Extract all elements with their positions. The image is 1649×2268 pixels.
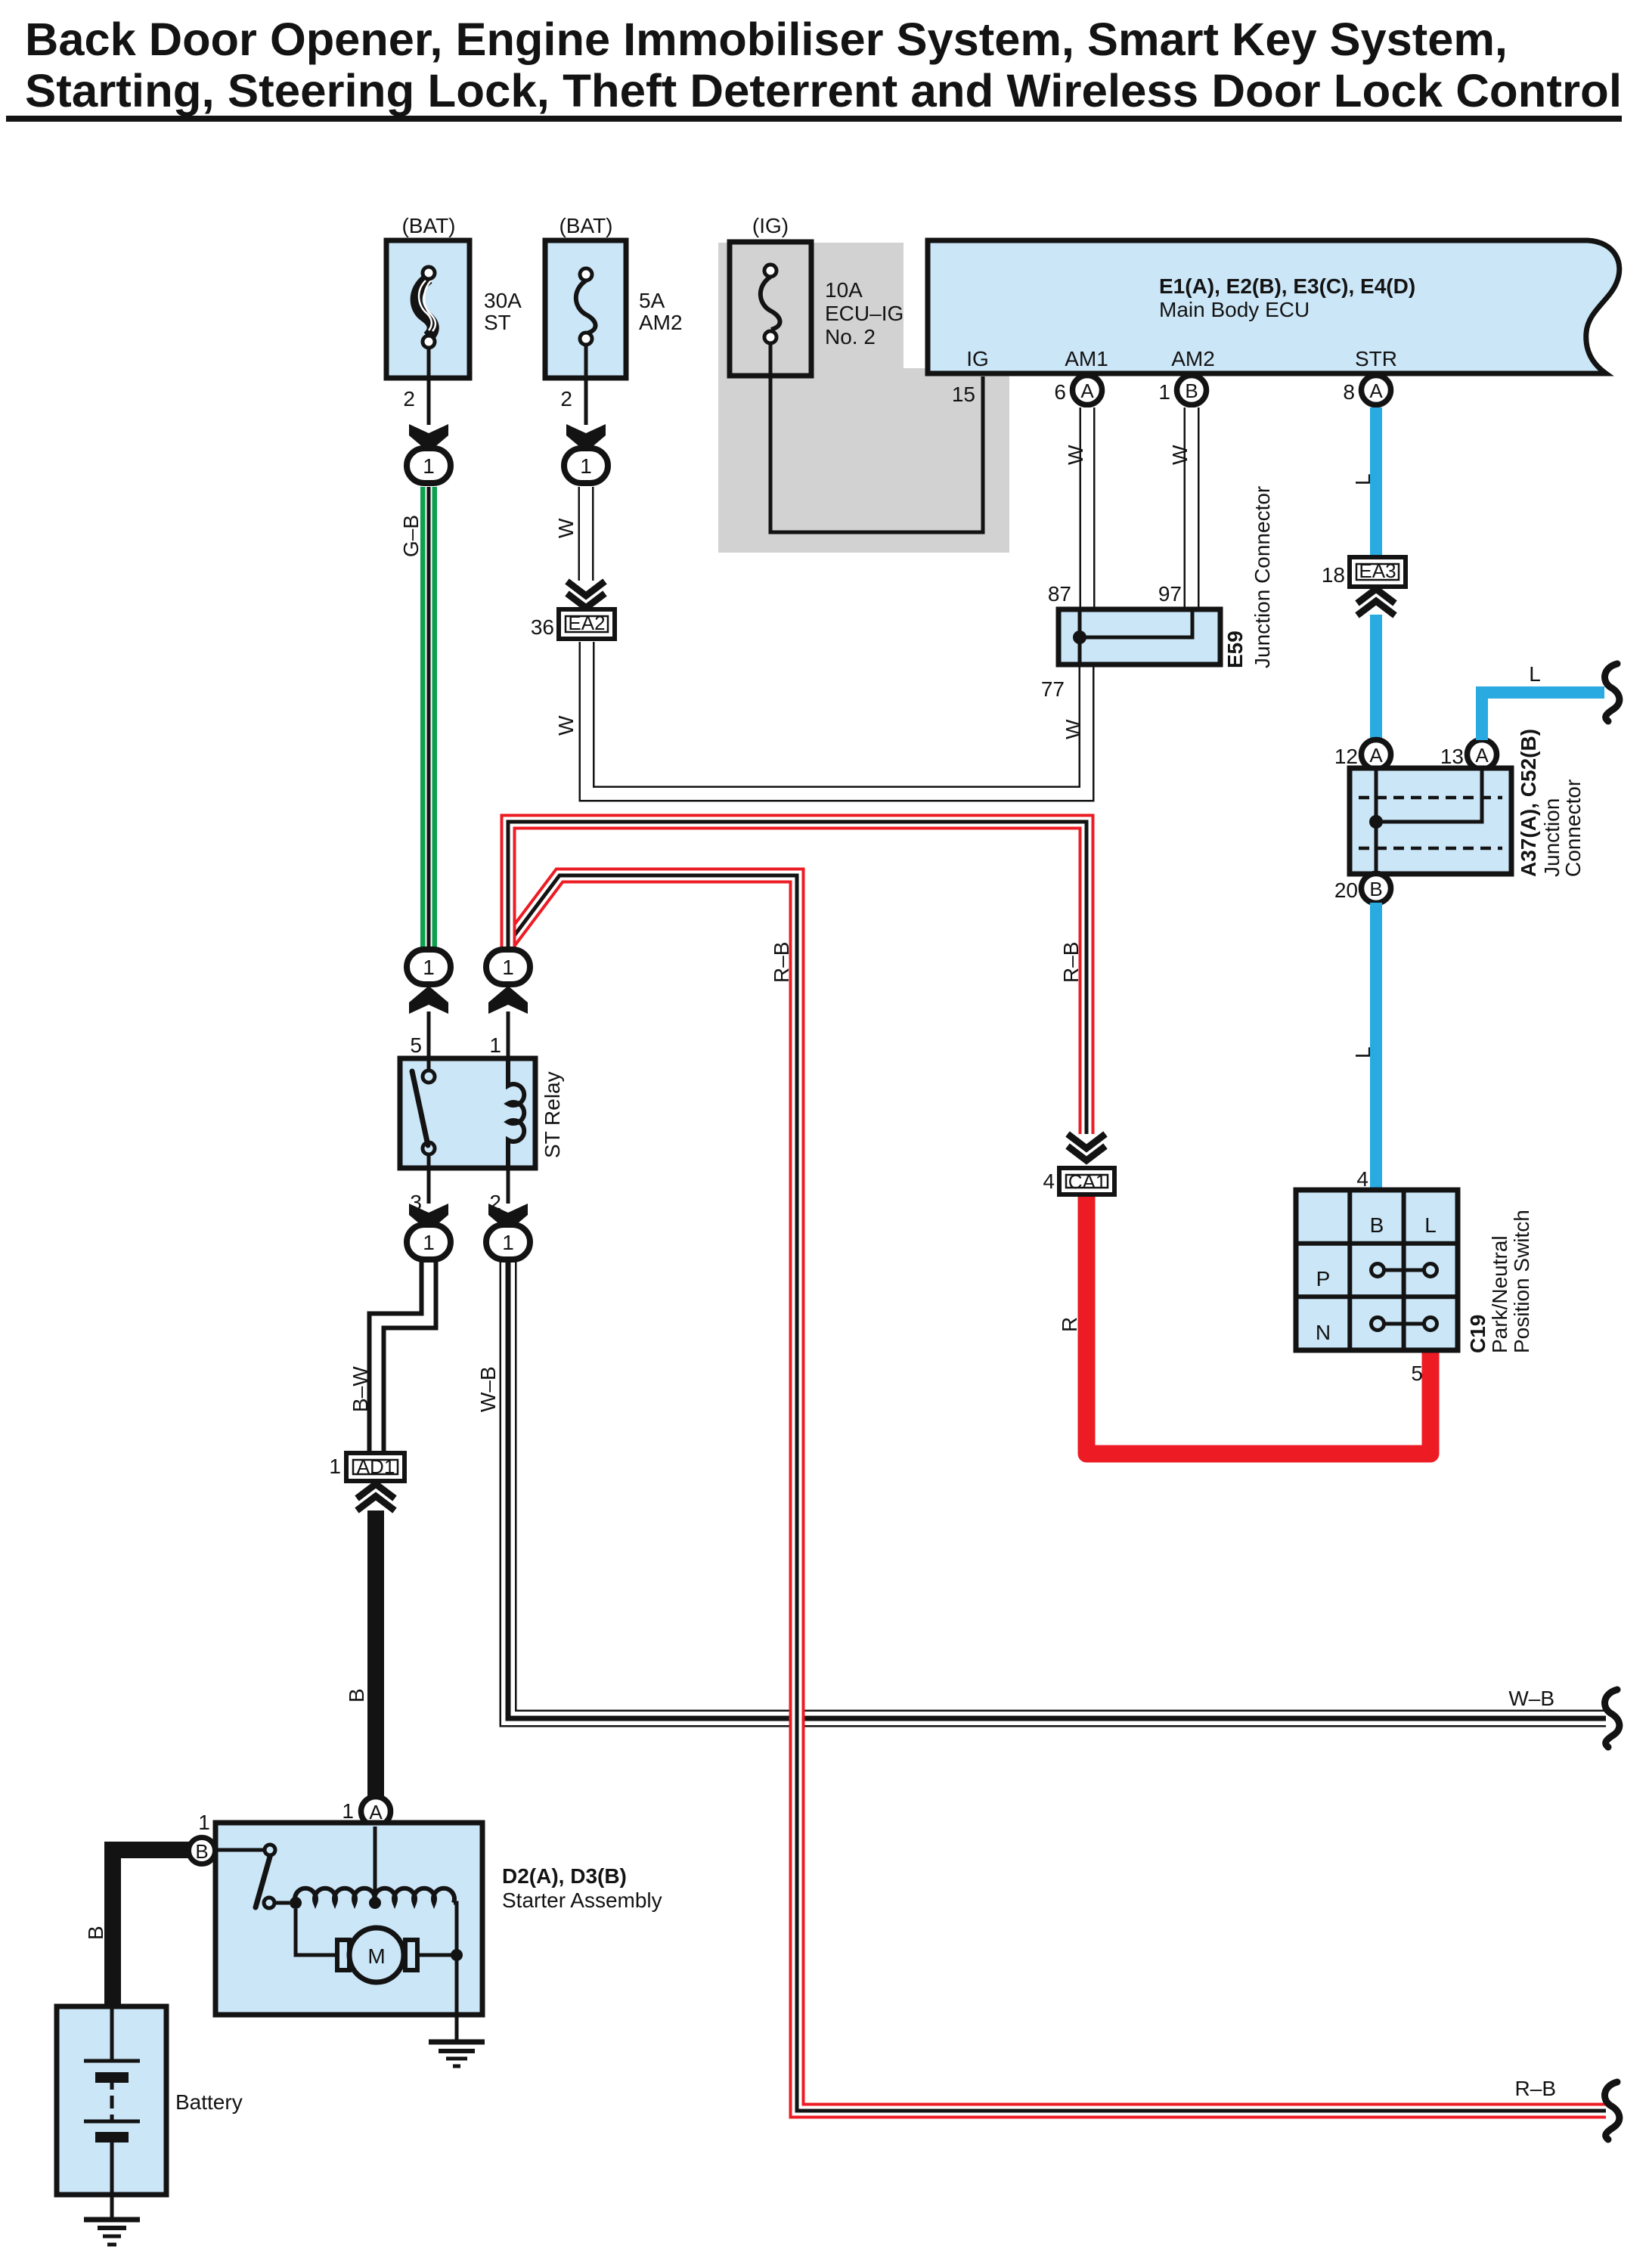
svg-text:15: 15 [952, 383, 975, 406]
svg-text:B: B [345, 1688, 368, 1703]
wire W from EA2 to E59 pin 77 [587, 642, 1086, 794]
junction connector E59 [1059, 609, 1220, 665]
svg-text:AM2: AM2 [639, 311, 683, 334]
relay coil [508, 1058, 524, 1168]
svg-text:Connector: Connector [1561, 779, 1585, 877]
svg-text:R–B: R–B [1059, 942, 1083, 983]
svg-text:97: 97 [1158, 582, 1182, 606]
battery [57, 2006, 166, 2195]
svg-text:R–B: R–B [1515, 2077, 1556, 2100]
svg-text:Back Door Opener, Engine Immob: Back Door Opener, Engine Immobiliser Sys… [25, 14, 1508, 66]
wire L from EA3 to junction connector pin 12 [1370, 615, 1382, 740]
svg-text:Park/Neutral: Park/Neutral [1488, 1235, 1511, 1353]
svg-text:B–W: B–W [349, 1366, 372, 1412]
wire R-B long run from relay pin 1 to right edge [509, 875, 1606, 2111]
svg-text:77: 77 [1041, 677, 1065, 701]
svg-text:W–B: W–B [476, 1366, 500, 1412]
C19 contact N row [1372, 1318, 1384, 1331]
svg-text:AM2: AM2 [1171, 347, 1215, 370]
wire W from 5A AM2 connector down [578, 487, 594, 581]
arrow into connector [409, 424, 448, 452]
svg-text:Main Body ECU: Main Body ECU [1159, 298, 1310, 321]
svg-text:36: 36 [531, 615, 554, 639]
starter internal switch [215, 1848, 265, 1852]
ground (battery) [84, 2217, 140, 2223]
main body ECU block [928, 240, 1620, 373]
wire L from pin 13 to right edge [1482, 692, 1604, 740]
svg-text:Position Switch: Position Switch [1510, 1210, 1533, 1353]
wire break squiggle (W-B) [1605, 1690, 1620, 1747]
svg-text:STR: STR [1355, 347, 1397, 370]
svg-text:13: 13 [1440, 745, 1464, 768]
svg-text:8: 8 [1343, 380, 1355, 404]
svg-text:1: 1 [423, 1231, 435, 1254]
wire B battery to starter pin 1(B) [113, 1850, 198, 2006]
shield chevron below AD1 [357, 1484, 395, 1510]
ground (starter) [429, 2040, 485, 2045]
svg-text:A: A [1080, 380, 1094, 402]
svg-text:L: L [1424, 1213, 1437, 1237]
svg-text:W: W [1064, 445, 1087, 465]
svg-text:W: W [554, 715, 578, 736]
node A37 junction dot [1369, 815, 1383, 829]
svg-text:B: B [84, 1926, 107, 1940]
wire W from AM1 to E59 pin 87 [1080, 407, 1096, 609]
wire B from AD1 to starter pin 1(A) [367, 1510, 384, 1797]
svg-text:1: 1 [329, 1455, 341, 1478]
node starter junction [290, 1897, 302, 1909]
connector 1 (5A AM2) [564, 448, 608, 483]
wire W-B from relay pin 2 to right edge [508, 1259, 1606, 1718]
starter field coils [295, 1888, 375, 1903]
svg-text:L: L [1351, 1046, 1375, 1058]
svg-text:AM1: AM1 [1065, 347, 1108, 370]
svg-text:ECU–IG: ECU–IG [825, 302, 904, 325]
svg-text:R–B: R–B [770, 942, 793, 983]
svg-text:P: P [1316, 1267, 1331, 1290]
svg-text:(BAT): (BAT) [559, 214, 612, 237]
svg-text:5: 5 [410, 1033, 422, 1057]
svg-text:Battery: Battery [175, 2090, 243, 2114]
svg-text:1: 1 [198, 1811, 210, 1834]
svg-text:CA1: CA1 [1068, 1170, 1107, 1193]
svg-text:A: A [1369, 380, 1383, 402]
svg-text:(IG): (IG) [752, 214, 789, 237]
arrow into connector [566, 424, 606, 452]
svg-text:A: A [1369, 744, 1383, 767]
svg-text:G–B: G–B [399, 515, 423, 557]
svg-text:W: W [1062, 719, 1085, 739]
wire B-W from relay pin 3 to AD1 [377, 1259, 429, 1453]
shield chevron into EA2 [567, 581, 605, 608]
svg-text:ST Relay: ST Relay [541, 1071, 564, 1158]
wire L from pin 20 to C19 pin 4 [1370, 903, 1382, 1190]
svg-text:1: 1 [502, 956, 514, 979]
wire R-B from ST relay pin 1 to CA1 [508, 822, 1086, 1134]
wire break squiggle (R-B) [1605, 2082, 1620, 2139]
svg-text:B: B [1369, 878, 1382, 900]
svg-text:N: N [1316, 1321, 1331, 1344]
svg-text:No. 2: No. 2 [825, 325, 876, 349]
svg-text:18: 18 [1322, 563, 1345, 587]
svg-text:1: 1 [423, 956, 435, 979]
wire break squiggle (L) [1605, 664, 1620, 721]
svg-text:1: 1 [580, 454, 592, 478]
svg-text:B: B [1185, 380, 1198, 402]
svg-text:A37(A), C52(B): A37(A), C52(B) [1517, 729, 1540, 877]
ST relay connector ovals [409, 986, 448, 1014]
svg-text:4: 4 [1356, 1167, 1368, 1191]
svg-text:AD1: AD1 [357, 1455, 395, 1478]
shield chevron below EA3 [1357, 589, 1395, 615]
svg-text:1: 1 [502, 1231, 514, 1254]
svg-text:1: 1 [1158, 380, 1170, 404]
svg-text:5A: 5A [639, 289, 665, 312]
svg-text:B: B [1370, 1213, 1384, 1237]
junction connector A37(A), C52(B) [1350, 768, 1511, 874]
svg-text:Junction: Junction [1540, 798, 1564, 877]
svg-text:1: 1 [342, 1799, 354, 1823]
svg-text:(BAT): (BAT) [401, 214, 455, 237]
connector 1 (30A ST) [407, 448, 451, 483]
wire W from AM2 to E59 pin 97 [1184, 407, 1200, 609]
svg-text:R: R [1058, 1317, 1081, 1332]
svg-text:E59: E59 [1223, 631, 1247, 668]
shield chevron into CA1 [1068, 1134, 1105, 1160]
svg-text:IG: IG [966, 347, 989, 370]
svg-text:EA3: EA3 [1359, 559, 1396, 582]
svg-text:W–B: W–B [1508, 1687, 1554, 1710]
relay pins 3 and 2 [427, 1168, 431, 1204]
svg-text:Starting, Steering Lock, Theft: Starting, Steering Lock, Theft Deterrent… [25, 65, 1622, 117]
svg-text:87: 87 [1048, 582, 1071, 606]
svg-text:W: W [1168, 445, 1192, 465]
gray harness region [718, 243, 1009, 553]
svg-text:12: 12 [1334, 745, 1358, 768]
svg-text:6: 6 [1054, 380, 1066, 404]
svg-text:C19: C19 [1466, 1315, 1489, 1353]
wire R from CA1 to C19 pin 5 [1086, 1191, 1430, 1454]
svg-text:L: L [1351, 473, 1375, 485]
svg-text:10A: 10A [825, 278, 863, 302]
starter motor M [349, 1928, 404, 1982]
connector EA3 [1350, 557, 1406, 587]
svg-text:Junction Connector: Junction Connector [1251, 486, 1274, 668]
starter assembly D2(A), D3(B) [215, 1823, 482, 2015]
wire L from ECU STR to EA3 [1370, 407, 1382, 557]
ST relay [400, 1058, 535, 1168]
svg-text:D2(A), D3(B): D2(A), D3(B) [502, 1864, 627, 1888]
svg-text:B: B [195, 1840, 208, 1863]
node motor junction [451, 1949, 463, 1961]
svg-text:ST: ST [484, 311, 511, 334]
svg-text:M: M [367, 1944, 385, 1968]
node E59 junction dot [1073, 631, 1086, 644]
connector EA2 [559, 609, 615, 639]
wire G-B from 30A fuse to ST relay pin 5 [420, 487, 437, 950]
connector AD1 [346, 1453, 405, 1481]
svg-text:L: L [1529, 662, 1541, 686]
svg-text:EA2: EA2 [568, 612, 605, 634]
svg-text:2: 2 [403, 387, 415, 411]
svg-text:W: W [554, 518, 578, 538]
svg-text:A: A [1475, 744, 1489, 767]
wire fuse3 to ECU pin 15 [770, 343, 983, 532]
svg-text:5: 5 [1411, 1362, 1423, 1385]
connector CA1 [1059, 1168, 1114, 1194]
svg-text:30A: 30A [484, 289, 522, 312]
svg-text:2: 2 [560, 387, 572, 411]
svg-text:4: 4 [1043, 1170, 1055, 1193]
svg-text:Starter Assembly: Starter Assembly [502, 1888, 662, 1912]
svg-text:1: 1 [423, 454, 435, 478]
C19 contact P row [1372, 1264, 1384, 1277]
svg-text:1: 1 [489, 1033, 501, 1057]
svg-text:E1(A), E2(B), E3(C), E4(D): E1(A), E2(B), E3(C), E4(D) [1159, 274, 1415, 298]
svg-text:20: 20 [1334, 878, 1358, 902]
